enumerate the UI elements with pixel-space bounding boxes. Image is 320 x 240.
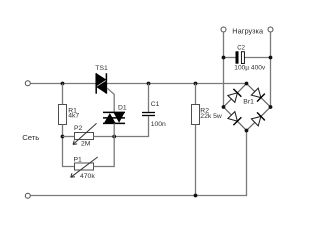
wire: R2 top lead: [195, 84, 197, 105]
diac D1: [103, 112, 125, 123]
node junction C1 top: [147, 82, 151, 86]
arm bottom-right: [247, 107, 271, 131]
wire: C1 bottom lead: [148, 116, 150, 137]
node junction R2 top: [194, 82, 198, 86]
svg-text:C1: C1: [151, 101, 160, 108]
wire: D1 bottom lead: [113, 123, 115, 136]
wire: C2 rail right part: [244, 57, 271, 59]
capacitor C1: [142, 112, 155, 114]
wire: top rail right segment: [107, 83, 247, 85]
diode on bottom-right arm (points to right node): [251, 112, 265, 126]
node junction R1 top: [61, 82, 65, 86]
terminal: mains bottom-left: [25, 193, 30, 198]
svg-text:P2: P2: [74, 125, 83, 132]
diode on top-left arm (points to top node): [227, 89, 241, 103]
terminal: mains top-left: [25, 81, 30, 86]
svg-text:22k 5w: 22k 5w: [200, 113, 222, 120]
wire: P2 left lead: [63, 136, 75, 138]
svg-text:TS1: TS1: [95, 65, 108, 72]
wire: top rail left segment: [30, 83, 96, 85]
svg-text:Сеть: Сеть: [22, 133, 39, 142]
potentiometer P2: [75, 133, 94, 140]
svg-text:100n: 100n: [151, 121, 166, 128]
arm bottom-left: [224, 107, 247, 131]
wire: bottom rail and bridge bottom lead: [30, 131, 246, 196]
svg-text:Br1: Br1: [243, 99, 254, 106]
svg-text:C2: C2: [237, 45, 245, 51]
wire: load left vertical: [223, 32, 225, 107]
svg-text:D1: D1: [118, 104, 127, 111]
wire: R1 top lead: [62, 84, 64, 105]
wire: R2 bottom lead: [195, 125, 197, 196]
arm top-right: [247, 84, 271, 108]
node junction R2 bottom: [194, 194, 198, 198]
triac TS1: [96, 73, 106, 94]
svg-text:Нагрузка: Нагрузка: [232, 27, 264, 36]
node junction C2 right: [269, 56, 273, 60]
arm top-left: [224, 84, 247, 108]
wire: triac gate: [107, 88, 114, 112]
node junction D1 bottom: [112, 135, 116, 139]
wire: P2 right to C1 bottom corner: [94, 136, 149, 138]
node junction C2 left: [222, 56, 226, 60]
svg-text:P1: P1: [74, 156, 83, 163]
node: bridge left: [222, 105, 226, 109]
node junction left of P2: [61, 135, 65, 139]
svg-text:4k7: 4k7: [68, 113, 79, 120]
wire: C2 rail left part: [224, 57, 236, 59]
svg-text:2M: 2M: [81, 140, 91, 147]
terminal: load left: [221, 27, 226, 32]
wire: C1 top lead: [148, 84, 150, 113]
potentiometer P1: [75, 163, 94, 170]
resistor R2: [192, 105, 200, 125]
wire: P1 right lead up to D1: [94, 137, 115, 167]
terminal: load right: [268, 27, 273, 32]
node: bridge bottom: [245, 129, 249, 133]
diode on top-right arm (points to right node): [251, 88, 265, 102]
node: bridge top: [245, 82, 249, 86]
wire: load right vertical: [270, 32, 272, 107]
svg-text:100µ 400v: 100µ 400v: [234, 65, 266, 72]
capacitor C2 (electrolytic): [236, 51, 239, 63]
diode on bottom-left arm (points to bottom node): [227, 111, 241, 125]
wire: left rail R1 bottom to P1 corner: [63, 125, 75, 167]
node: bridge right: [269, 105, 273, 109]
resistor R1: [59, 105, 67, 125]
svg-text:470k: 470k: [80, 173, 95, 180]
bridge rectifier Br1: [224, 84, 271, 131]
